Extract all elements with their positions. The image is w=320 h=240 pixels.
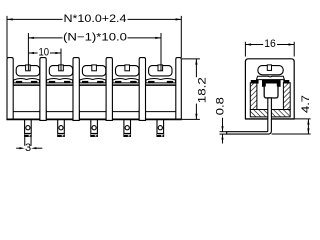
- right section wall (hatched): [283, 83, 290, 110]
- inner base line segment 2: [46, 111, 73, 113]
- body step line segment 4: [112, 84, 139, 86]
- body step line segment 1: [13, 84, 40, 86]
- barrier foot 3: [106, 110, 112, 120]
- bent solder pin (side): [227, 98, 272, 134]
- extension line right body edge: [180, 16, 182, 58]
- wire clamp plate 1: [14, 79, 40, 83]
- barrier wall 2: [73, 58, 79, 120]
- dimension (N-1)*10.0: [28, 37, 161, 39]
- inner base line segment 5: [146, 111, 176, 113]
- solder pin 4 with hole: [124, 119, 131, 136]
- svg-text:16: 16: [264, 38, 276, 50]
- inner base line segment 3: [79, 111, 106, 113]
- screw M3 head 2: [49, 65, 72, 76]
- extension line screw 2 center: [60, 49, 62, 71]
- side body bottom edge: [245, 118, 295, 120]
- dimension 0.8 (pin thickness): [221, 118, 223, 144]
- barrier wall 4: [139, 58, 145, 120]
- solder pin 5 with hole: [157, 119, 164, 136]
- screw M3 head 1: [16, 65, 39, 76]
- barrier wall 1: [40, 58, 46, 120]
- right end wall: [176, 58, 182, 120]
- svg-text:N*10.0+2.4: N*10.0+2.4: [64, 13, 127, 25]
- side clamp plate: [257, 76, 285, 79]
- screw M3 head 4: [116, 65, 139, 76]
- screw M3 head 5: [149, 65, 172, 76]
- extension lines pin thickness (0.8): [220, 132, 227, 134]
- extension line screw 1 center: [27, 33, 29, 71]
- left end wall: [7, 58, 13, 120]
- svg-text:4.7: 4.7: [300, 95, 312, 113]
- svg-text:(N−1)*10.0: (N−1)*10.0: [63, 32, 127, 44]
- dimension 18.2 (height): [182, 59, 200, 120]
- clamp dark band segments: [251, 80, 289, 84]
- dimension 3 (pin width): [16, 137, 42, 149]
- inner base line segment 4: [112, 111, 139, 113]
- dimension 16 (width): [245, 42, 294, 57]
- dimension 10 (pitch): [28, 52, 61, 54]
- svg-text:18.2: 18.2: [197, 77, 209, 103]
- body step line segment 3: [79, 84, 106, 86]
- screw M3 head 3: [82, 65, 105, 76]
- wire clamp plate 2: [47, 79, 73, 83]
- front body bottom edge: [6, 118, 182, 120]
- svg-text:10: 10: [39, 47, 50, 59]
- wire clamp plate 5: [146, 79, 176, 83]
- dimension 4.7 (pin depth): [307, 119, 309, 134]
- clamp side blocks: [262, 84, 281, 87]
- body step line segment 2: [46, 84, 73, 86]
- left section wall (hatched): [250, 83, 257, 110]
- wire clamp plate 4: [113, 79, 139, 83]
- extension line screw 5 center: [160, 33, 162, 71]
- dimension N*10.0+2.4: [7, 18, 181, 20]
- extension line pin bottom (4.7 bottom): [272, 133, 311, 135]
- solder pin 1 with hole: [25, 119, 32, 136]
- svg-text:3: 3: [25, 142, 31, 154]
- barrier foot 1: [40, 110, 46, 120]
- extension line body bottom (4.7 top): [295, 118, 311, 120]
- solder pin 2 with hole: [58, 119, 65, 136]
- side screw head (section): [258, 65, 283, 75]
- wire clamp plate 3: [80, 79, 106, 83]
- inner base line segment 1: [13, 111, 40, 113]
- extension line left body edge: [6, 16, 8, 58]
- solder pin 3 with hole: [91, 119, 98, 136]
- barrier foot 2: [73, 110, 79, 120]
- barrier foot 4: [139, 110, 145, 120]
- bottom base band (hatched): [250, 110, 290, 117]
- body step line segment 5: [146, 84, 176, 86]
- side body outline: [245, 59, 294, 119]
- barrier wall 3: [106, 58, 112, 120]
- svg-text:0.8: 0.8: [215, 97, 227, 115]
- screw barrel cup: [264, 87, 278, 98]
